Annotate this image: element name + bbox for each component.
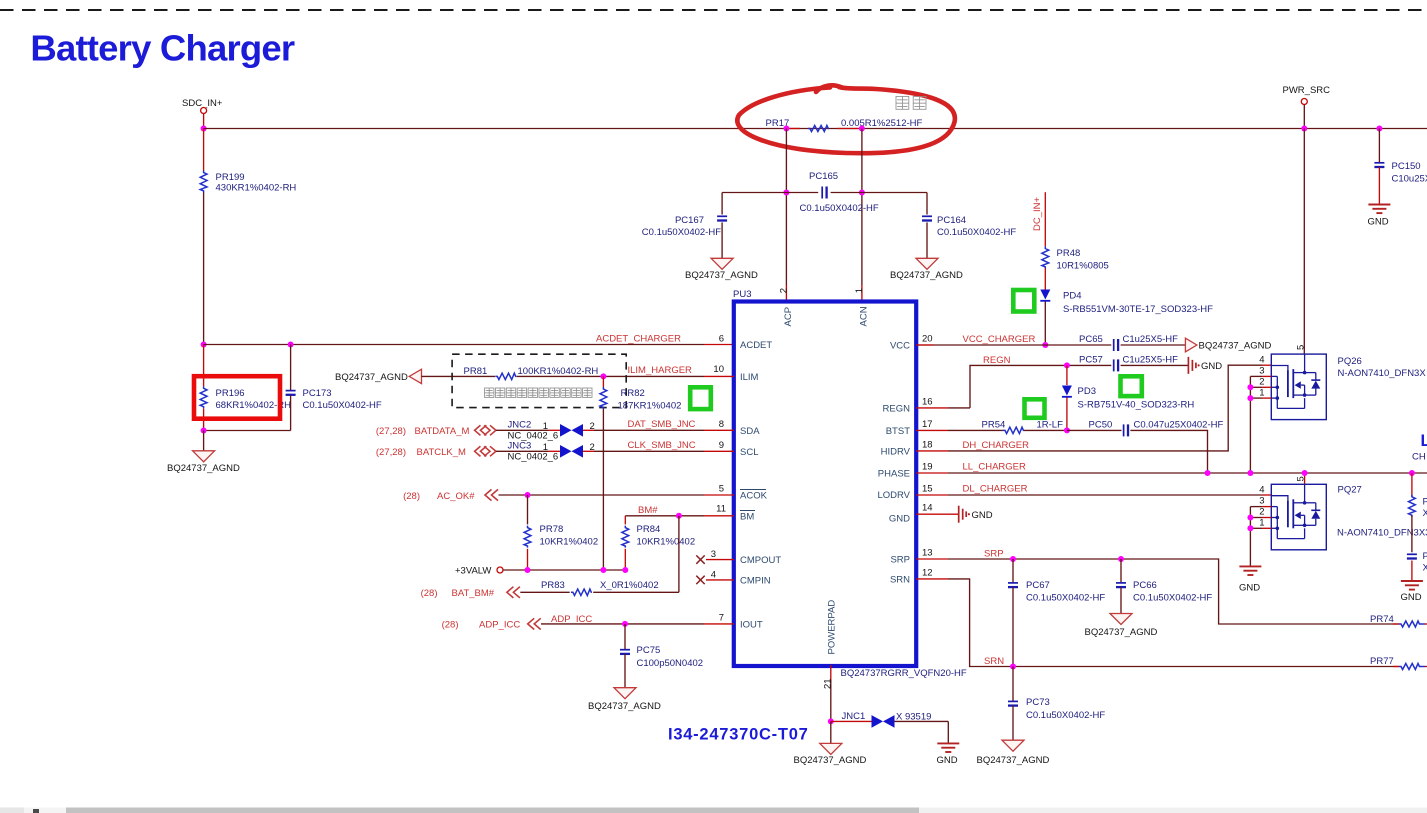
pin 15 LODRV (922, 484, 933, 495)
svg-text:PR81: PR81 (464, 366, 488, 377)
wire PQ27 drain (1295, 473, 1306, 484)
resistor PR17 0.005R 2512 (766, 118, 923, 132)
svg-text:BQ24737_AGND: BQ24737_AGND (1085, 627, 1158, 638)
wire BTST net (916, 429, 1067, 431)
annotation green square PD3-right (1121, 376, 1142, 396)
wire VCC net (916, 344, 1186, 346)
junction PQ27 pin2 (1247, 515, 1253, 521)
pin 20 VCC (922, 334, 933, 345)
jumper JNC3 NC_0402_6 (508, 441, 595, 463)
junction +3VALW/PR78 (525, 567, 531, 573)
svg-text:SRP: SRP (984, 549, 1004, 560)
wire to AGND (203, 431, 205, 451)
svg-text:1: 1 (543, 421, 548, 432)
junction ACP/PC165 (783, 190, 789, 196)
wire PQ27 source bracket (1249, 507, 1251, 567)
svg-text:C1u25X5-HF: C1u25X5-HF (1123, 334, 1179, 345)
junction PC150/rail (1376, 126, 1382, 132)
junction BTST/PD3 (1064, 427, 1070, 433)
junction ACOK/PR78 (525, 492, 531, 498)
pin 4 PQ26 (1259, 355, 1264, 366)
wire PC57 to GND (1121, 364, 1189, 366)
pin 14 GND (922, 503, 933, 514)
pin 1 PQ27 (1250, 518, 1271, 529)
svg-text:X_0R1%0402: X_0R1%0402 (600, 580, 659, 591)
pin 17 BTST (922, 419, 933, 430)
svg-text:18: 18 (922, 440, 933, 451)
svg-text:11: 11 (716, 504, 726, 515)
pin name CMPIN (740, 576, 771, 587)
svg-text:10: 10 (713, 364, 724, 375)
svg-text:PR199: PR199 (216, 172, 245, 183)
svg-text:BAT_BM#: BAT_BM# (452, 588, 495, 599)
junction PR17 pin1 (783, 126, 789, 132)
pin name SDA (740, 426, 760, 437)
svg-text:VCC_CHARGER: VCC_CHARGER (963, 334, 1036, 345)
svg-text:RR82: RR82 (621, 388, 645, 399)
op-amp U1 PU3 BQ24737 body (733, 289, 916, 666)
svg-text:ILIM_HARGER: ILIM_HARGER (628, 365, 693, 376)
svg-text:POWERPAD: POWERPAD (827, 600, 838, 655)
resistor PR74 (1370, 614, 1427, 627)
junction PQ26 pin1 (1247, 395, 1253, 401)
resistor PR54 1R-LF (982, 420, 1064, 434)
svg-text:CLK_SMB_JNC: CLK_SMB_JNC (628, 440, 696, 451)
svg-text:ACDET: ACDET (740, 340, 772, 351)
wire PWR_SRC stub (1303, 105, 1305, 129)
svg-text:GND: GND (889, 514, 910, 525)
svg-text:LODRV: LODRV (877, 490, 910, 501)
wire rail to PR199 (203, 129, 205, 171)
node SDC_IN+ (182, 98, 223, 114)
pin name GND (889, 514, 910, 525)
wire PR196/PC173 bottom (204, 430, 291, 432)
svg-text:21: 21 (822, 678, 833, 689)
title Battery Charger (30, 28, 294, 69)
wire POWERPAD (822, 665, 833, 721)
svg-text:JNC1: JNC1 (842, 711, 866, 722)
svg-text:BQ24737_AGND: BQ24737_AGND (588, 701, 661, 712)
wire +3VALW rail (503, 569, 625, 571)
capacitor PC66 0.1u (1116, 559, 1212, 614)
pin 19 PHASE (922, 462, 933, 473)
junction VCC/PD4 (1042, 342, 1048, 348)
label ILIM_HARGER (628, 365, 693, 376)
offpage AC_OK# (403, 489, 498, 502)
pin name PHASE (878, 469, 910, 480)
svg-text:GND: GND (1368, 217, 1389, 228)
label CLK_SMB_JNC (628, 440, 696, 451)
wire REGN up (970, 365, 1111, 408)
wire PQ26 source bracket (1249, 376, 1251, 473)
svg-text:VCC: VCC (890, 341, 910, 352)
wire JNC1 to GND (947, 721, 949, 743)
scrollbar (0, 808, 1427, 813)
junction PQ27 drain/LL (1302, 470, 1308, 476)
svg-text:1: 1 (543, 442, 548, 453)
pin name ACDET (740, 340, 772, 351)
pin 3 PQ26 (1250, 366, 1271, 377)
svg-text:P: P (1423, 497, 1427, 508)
svg-text:PC167: PC167 (675, 215, 704, 226)
wire right column 3 (1411, 561, 1413, 582)
junction IOUT/PC75 (622, 621, 628, 627)
no-connect pin 4 CMPIN (696, 570, 734, 585)
pin 1 ACN (854, 288, 870, 327)
svg-text:2: 2 (1259, 507, 1264, 518)
pin name BM (overline) (740, 511, 755, 523)
svg-text:C0.1u50X0402-HF: C0.1u50X0402-HF (800, 203, 879, 214)
svg-text:NC_0402_6: NC_0402_6 (508, 452, 559, 463)
pin 8 SDA (719, 419, 724, 430)
capacitor PC57 C1u (1079, 355, 1178, 372)
svg-text:ACDET_CHARGER: ACDET_CHARGER (596, 334, 681, 345)
svg-text:PD4: PD4 (1063, 291, 1081, 302)
svg-text:BQ24737RGRR_VQFN20-HF: BQ24737RGRR_VQFN20-HF (841, 668, 967, 679)
pin 11 BM (716, 504, 726, 515)
junction SRP/PC67 (1010, 556, 1016, 562)
svg-text:PD3: PD3 (1078, 386, 1096, 397)
wire LL_CHARGER (916, 472, 1427, 474)
svg-text:BQ24737_AGND: BQ24737_AGND (335, 372, 408, 383)
svg-text:(27,28): (27,28) (376, 447, 406, 458)
pin name HIDRV (881, 447, 911, 458)
junction PHASE/PC50 (1205, 470, 1211, 476)
svg-text:13: 13 (922, 548, 933, 559)
svg-text:4: 4 (711, 570, 716, 581)
svg-text:2: 2 (1259, 377, 1264, 388)
ground GND (pin14) (959, 506, 993, 523)
svg-text:PC67: PC67 (1026, 580, 1050, 591)
svg-text:PC173: PC173 (303, 388, 332, 399)
wire DAT_SMB_JNC (594, 429, 734, 431)
svg-text:N-AON7410_DFN3X: N-AON7410_DFN3X (1338, 368, 1427, 379)
annotation dashed box (452, 354, 626, 407)
svg-text:I34-247370C-T07: I34-247370C-T07 (668, 726, 809, 744)
svg-text:(27,28): (27,28) (376, 426, 406, 437)
svg-text:LL_CHARGER: LL_CHARGER (963, 462, 1026, 473)
svg-text:PC50: PC50 (1089, 420, 1113, 431)
junction PR196 bottom (201, 428, 207, 434)
pin 2 PQ27 (1250, 507, 1271, 518)
svg-text:19: 19 (922, 462, 933, 473)
pin 3 PQ27 (1250, 496, 1271, 507)
junction PWR_SRC/rail (1301, 126, 1307, 132)
jumper JNC2 NC_0402_6 (508, 420, 595, 442)
svg-text:PWR_SRC: PWR_SRC (1283, 85, 1331, 96)
annotation 換料 (gray CJK) (896, 97, 926, 110)
svg-text:BQ24737_AGND: BQ24737_AGND (977, 755, 1050, 766)
capacitor PC50 C0.047u (1089, 420, 1224, 437)
junction PQ26 source/LL (1247, 470, 1253, 476)
offpage BATDATA_M (376, 425, 496, 437)
capacitor PC173 0.1u (286, 345, 382, 431)
pin name IOUT (740, 620, 763, 631)
ground GND (PC150) (1368, 205, 1391, 228)
wire PQ26 drain (1295, 129, 1306, 355)
svg-text:3: 3 (1259, 496, 1264, 507)
wire JNC1 to AGND (830, 721, 832, 743)
svg-text:Battery Charger: Battery Charger (30, 28, 294, 69)
junction SRN/PC73 (1010, 664, 1016, 670)
wire REGN pin stub (916, 407, 970, 409)
svg-text:PR48: PR48 (1057, 248, 1081, 259)
svg-text:PU3: PU3 (733, 289, 751, 300)
svg-text:PR54: PR54 (982, 420, 1006, 431)
wire IOUT net (541, 623, 734, 625)
svg-text:BTST: BTST (886, 426, 910, 437)
resistor PR196 68K (200, 345, 291, 431)
svg-text:PC150: PC150 (1392, 161, 1421, 172)
svg-text:GND: GND (972, 510, 993, 521)
label ADP_ICC net (551, 614, 592, 625)
wire PR83 to BM (678, 516, 680, 593)
resistor PR78 10K (524, 495, 598, 570)
junction PQ27 pin1 (1247, 525, 1253, 531)
svg-text:4: 4 (1259, 485, 1264, 496)
svg-text:(28): (28) (442, 620, 459, 631)
svg-text:N-AON7410_DFN3X3: N-AON7410_DFN3X3 (1337, 528, 1427, 539)
svg-text:REGN: REGN (983, 355, 1011, 366)
svg-text:100KR1%0402-RH: 100KR1%0402-RH (518, 366, 599, 377)
svg-text:S-RB551VM-30TE-17_SOD323-HF: S-RB551VM-30TE-17_SOD323-HF (1063, 304, 1213, 315)
junction +3VALW/RR82 (600, 567, 606, 573)
svg-text:S-RB751V-40_SOD323-RH: S-RB751V-40_SOD323-RH (1078, 400, 1195, 411)
wire PD4 to VCC (1044, 302, 1046, 346)
svg-text:REGN: REGN (883, 404, 911, 415)
wire top rail (204, 128, 1427, 130)
pin 16 REGN (922, 397, 933, 408)
svg-text:SCL: SCL (740, 447, 758, 458)
junction LL/right column (1409, 470, 1415, 476)
pin 18 HIDRV (922, 440, 933, 451)
svg-text:(28): (28) (421, 588, 438, 599)
svg-text:SRN: SRN (984, 656, 1004, 667)
power BQ24737_AGND (PC65) (1185, 338, 1271, 352)
diode PD4 S-RB551VM (1040, 290, 1213, 316)
label DAT_SMB_JNC (628, 419, 696, 430)
wire ACN vertical (861, 129, 863, 301)
svg-text:PHASE: PHASE (878, 469, 910, 480)
svg-text:7: 7 (719, 613, 724, 624)
capacitor PC73 0.1u (1008, 667, 1105, 741)
svg-text:C0.047u25X0402-HF: C0.047u25X0402-HF (1134, 420, 1224, 431)
svg-text:(28): (28) (403, 491, 420, 502)
wire SRN net (916, 579, 1399, 667)
svg-text:PR77: PR77 (1370, 656, 1394, 667)
wire ACP vertical (785, 129, 787, 301)
svg-text:10KR1%0402: 10KR1%0402 (637, 537, 696, 548)
svg-text:+3VALW: +3VALW (455, 566, 491, 577)
pin name SRN (890, 575, 910, 586)
label L (cut) (1421, 432, 1427, 450)
svg-text:C0.1u50X0402-HF: C0.1u50X0402-HF (937, 227, 1016, 238)
pin 2 PQ26 (1250, 377, 1271, 388)
pin name BTST (886, 426, 910, 437)
svg-text:PQ26: PQ26 (1338, 356, 1362, 367)
svg-text:10R1%0805: 10R1%0805 (1057, 261, 1109, 272)
svg-text:SDA: SDA (740, 426, 760, 437)
wire BTST to PC50 (1067, 429, 1122, 431)
svg-text:GND: GND (1401, 592, 1422, 603)
label REGN (983, 355, 1011, 366)
ground GND (JNC1) (937, 743, 960, 766)
pin 6 ACDET (719, 334, 724, 345)
pin name LODRV (877, 490, 910, 501)
junction +3VALW/PR84 (622, 567, 628, 573)
ground BQ24737_AGND (POWERPAD) (794, 743, 867, 766)
capacitor PC65 C1u (1079, 334, 1178, 351)
pin name VCC (890, 341, 910, 352)
svg-text:PR196: PR196 (216, 388, 245, 399)
pin name POWERPAD (827, 600, 838, 655)
label BM# (638, 505, 658, 516)
label SRP (984, 549, 1004, 560)
svg-text:10KR1%0402: 10KR1%0402 (540, 537, 599, 548)
junction JNC1 (828, 718, 834, 724)
drawing number I34-247370C-T07 (668, 726, 809, 744)
svg-text:5: 5 (1295, 345, 1306, 350)
svg-text:X 93519: X 93519 (896, 712, 931, 723)
svg-text:3: 3 (711, 549, 716, 560)
svg-text:GND: GND (1239, 583, 1260, 594)
annotation 確認外部充電電流調整 (gray CJK) (485, 388, 593, 397)
svg-text:BQ24737_AGND: BQ24737_AGND (1199, 341, 1272, 352)
svg-text:8: 8 (719, 419, 724, 430)
svg-text:9: 9 (719, 440, 724, 451)
ground BQ24737_AGND (PC73) (977, 740, 1050, 766)
svg-text:15: 15 (922, 484, 933, 495)
transistor Q2 PQ27 N-AON7410 (1271, 484, 1427, 550)
label SRN (pin) (984, 656, 1004, 667)
junction PC173 top (288, 342, 294, 348)
svg-text:DL_CHARGER: DL_CHARGER (963, 484, 1028, 495)
junction PR17 pin2 (859, 126, 865, 132)
wire PC165 net (722, 192, 927, 194)
svg-text:SRN: SRN (890, 575, 910, 586)
svg-text:P: P (1423, 551, 1427, 562)
pin name CMPOUT (740, 555, 781, 566)
resistor PR48 10R (1042, 247, 1109, 272)
diode PD3 S-RB751V (1062, 365, 1194, 430)
resistor right edge (cut) (1409, 495, 1427, 519)
svg-text:PQ27: PQ27 (1338, 485, 1362, 496)
label DL_CHARGER (963, 484, 1028, 495)
pin name SRP (890, 555, 910, 566)
junction SRP/PC66 (1118, 556, 1124, 562)
node DC_IN+ (1032, 196, 1043, 231)
svg-text:DH_CHARGER: DH_CHARGER (963, 440, 1030, 451)
junction ACN/PC165 (859, 190, 865, 196)
top dashed border (0, 9, 1427, 11)
pin 4 PQ27 (1259, 485, 1264, 496)
svg-text:2: 2 (778, 288, 789, 293)
svg-text:C0.1u50X0402-HF: C0.1u50X0402-HF (1026, 710, 1105, 721)
wire DC_IN stub (1044, 192, 1046, 246)
offpage ADP_ICC (442, 618, 541, 630)
svg-text:PR78: PR78 (540, 524, 564, 535)
svg-text:BQ24737_AGND: BQ24737_AGND (890, 270, 963, 281)
wire right column 2 (1411, 515, 1413, 552)
svg-text:1: 1 (854, 288, 865, 293)
wire ACOK net (499, 494, 735, 496)
svg-text:CH: CH (1412, 452, 1426, 463)
pin 12 SRN (922, 568, 933, 579)
wire PR199 to ACDET node (203, 193, 205, 345)
capacitor PC75 C100p (620, 624, 703, 688)
wire BATCLK (496, 450, 549, 452)
pin name SCL (740, 447, 758, 458)
svg-text:430KR1%0402-RH: 430KR1%0402-RH (216, 183, 297, 194)
svg-text:BQ24737_AGND: BQ24737_AGND (685, 270, 758, 281)
resistor RR82 187K (600, 376, 681, 570)
resistor PR199 430K (200, 171, 296, 194)
svg-text:C0.1u50X0402-HF: C0.1u50X0402-HF (1133, 593, 1212, 604)
svg-text:PC75: PC75 (637, 645, 661, 656)
pin 9 SCL (719, 440, 724, 451)
svg-text:C0.1u50X0402-HF: C0.1u50X0402-HF (1026, 593, 1105, 604)
pin 13 SRP (922, 548, 933, 559)
svg-text:X: X (1423, 508, 1427, 519)
wire PR48 to PD4 (1044, 269, 1046, 290)
junction ACDET left (201, 342, 207, 348)
svg-text:4: 4 (1259, 355, 1264, 366)
resistor PR83 X_0R (520, 580, 679, 596)
node +3VALW (455, 566, 503, 577)
wire BATDATA (496, 429, 549, 431)
svg-text:ACN: ACN (859, 306, 870, 326)
svg-text:BM: BM (740, 512, 754, 523)
ground BQ24737_AGND (PR196) (167, 451, 240, 474)
svg-text:PC57: PC57 (1079, 355, 1103, 366)
capacitor PC150 C10u (1374, 129, 1427, 205)
label LL_CHARGER (963, 462, 1026, 473)
svg-text:C0.1u50X0402-HF: C0.1u50X0402-HF (642, 227, 721, 238)
wire CLK_SMB_JNC (594, 450, 734, 452)
junction ILIM/RR82 (600, 373, 606, 379)
ground GND (PC57) (1188, 357, 1222, 374)
svg-text:5: 5 (719, 484, 724, 495)
no-connect pin 3 CMPOUT (696, 549, 734, 564)
svg-text:1: 1 (1259, 388, 1264, 399)
capacitor PC67 0.1u (1008, 559, 1105, 667)
label CH (cut) (1412, 452, 1426, 463)
svg-text:X: X (1423, 563, 1427, 574)
ground BQ24737_AGND (PC167) (685, 258, 758, 281)
junction SDC_IN+/rail (201, 126, 207, 132)
label VCC_CHARGER (963, 334, 1036, 345)
svg-text:SRP: SRP (890, 555, 910, 566)
svg-text:GND: GND (1201, 361, 1222, 372)
wire right column (1411, 473, 1413, 496)
junction BM/PR83 (676, 513, 682, 519)
svg-text:3: 3 (1259, 366, 1264, 377)
offpage BAT_BM# (421, 587, 520, 599)
resistor PR77 (1370, 656, 1427, 670)
svg-text:ILIM: ILIM (740, 372, 759, 383)
resistor PR81 100K (464, 366, 599, 380)
label ACDET_CHARGER (596, 334, 681, 345)
wire PC50 to PHASE (1130, 430, 1207, 473)
svg-text:GND: GND (937, 755, 958, 766)
svg-text:BATCLK_M: BATCLK_M (417, 447, 467, 458)
transistor Q1 PQ26 N-AON7410 (1271, 354, 1426, 420)
svg-text:JNC3: JNC3 (508, 441, 532, 452)
pin 1 PQ26 (1250, 388, 1271, 399)
label DH_CHARGER (963, 440, 1030, 451)
svg-text:1: 1 (1259, 518, 1264, 529)
svg-text:6: 6 (719, 334, 724, 345)
